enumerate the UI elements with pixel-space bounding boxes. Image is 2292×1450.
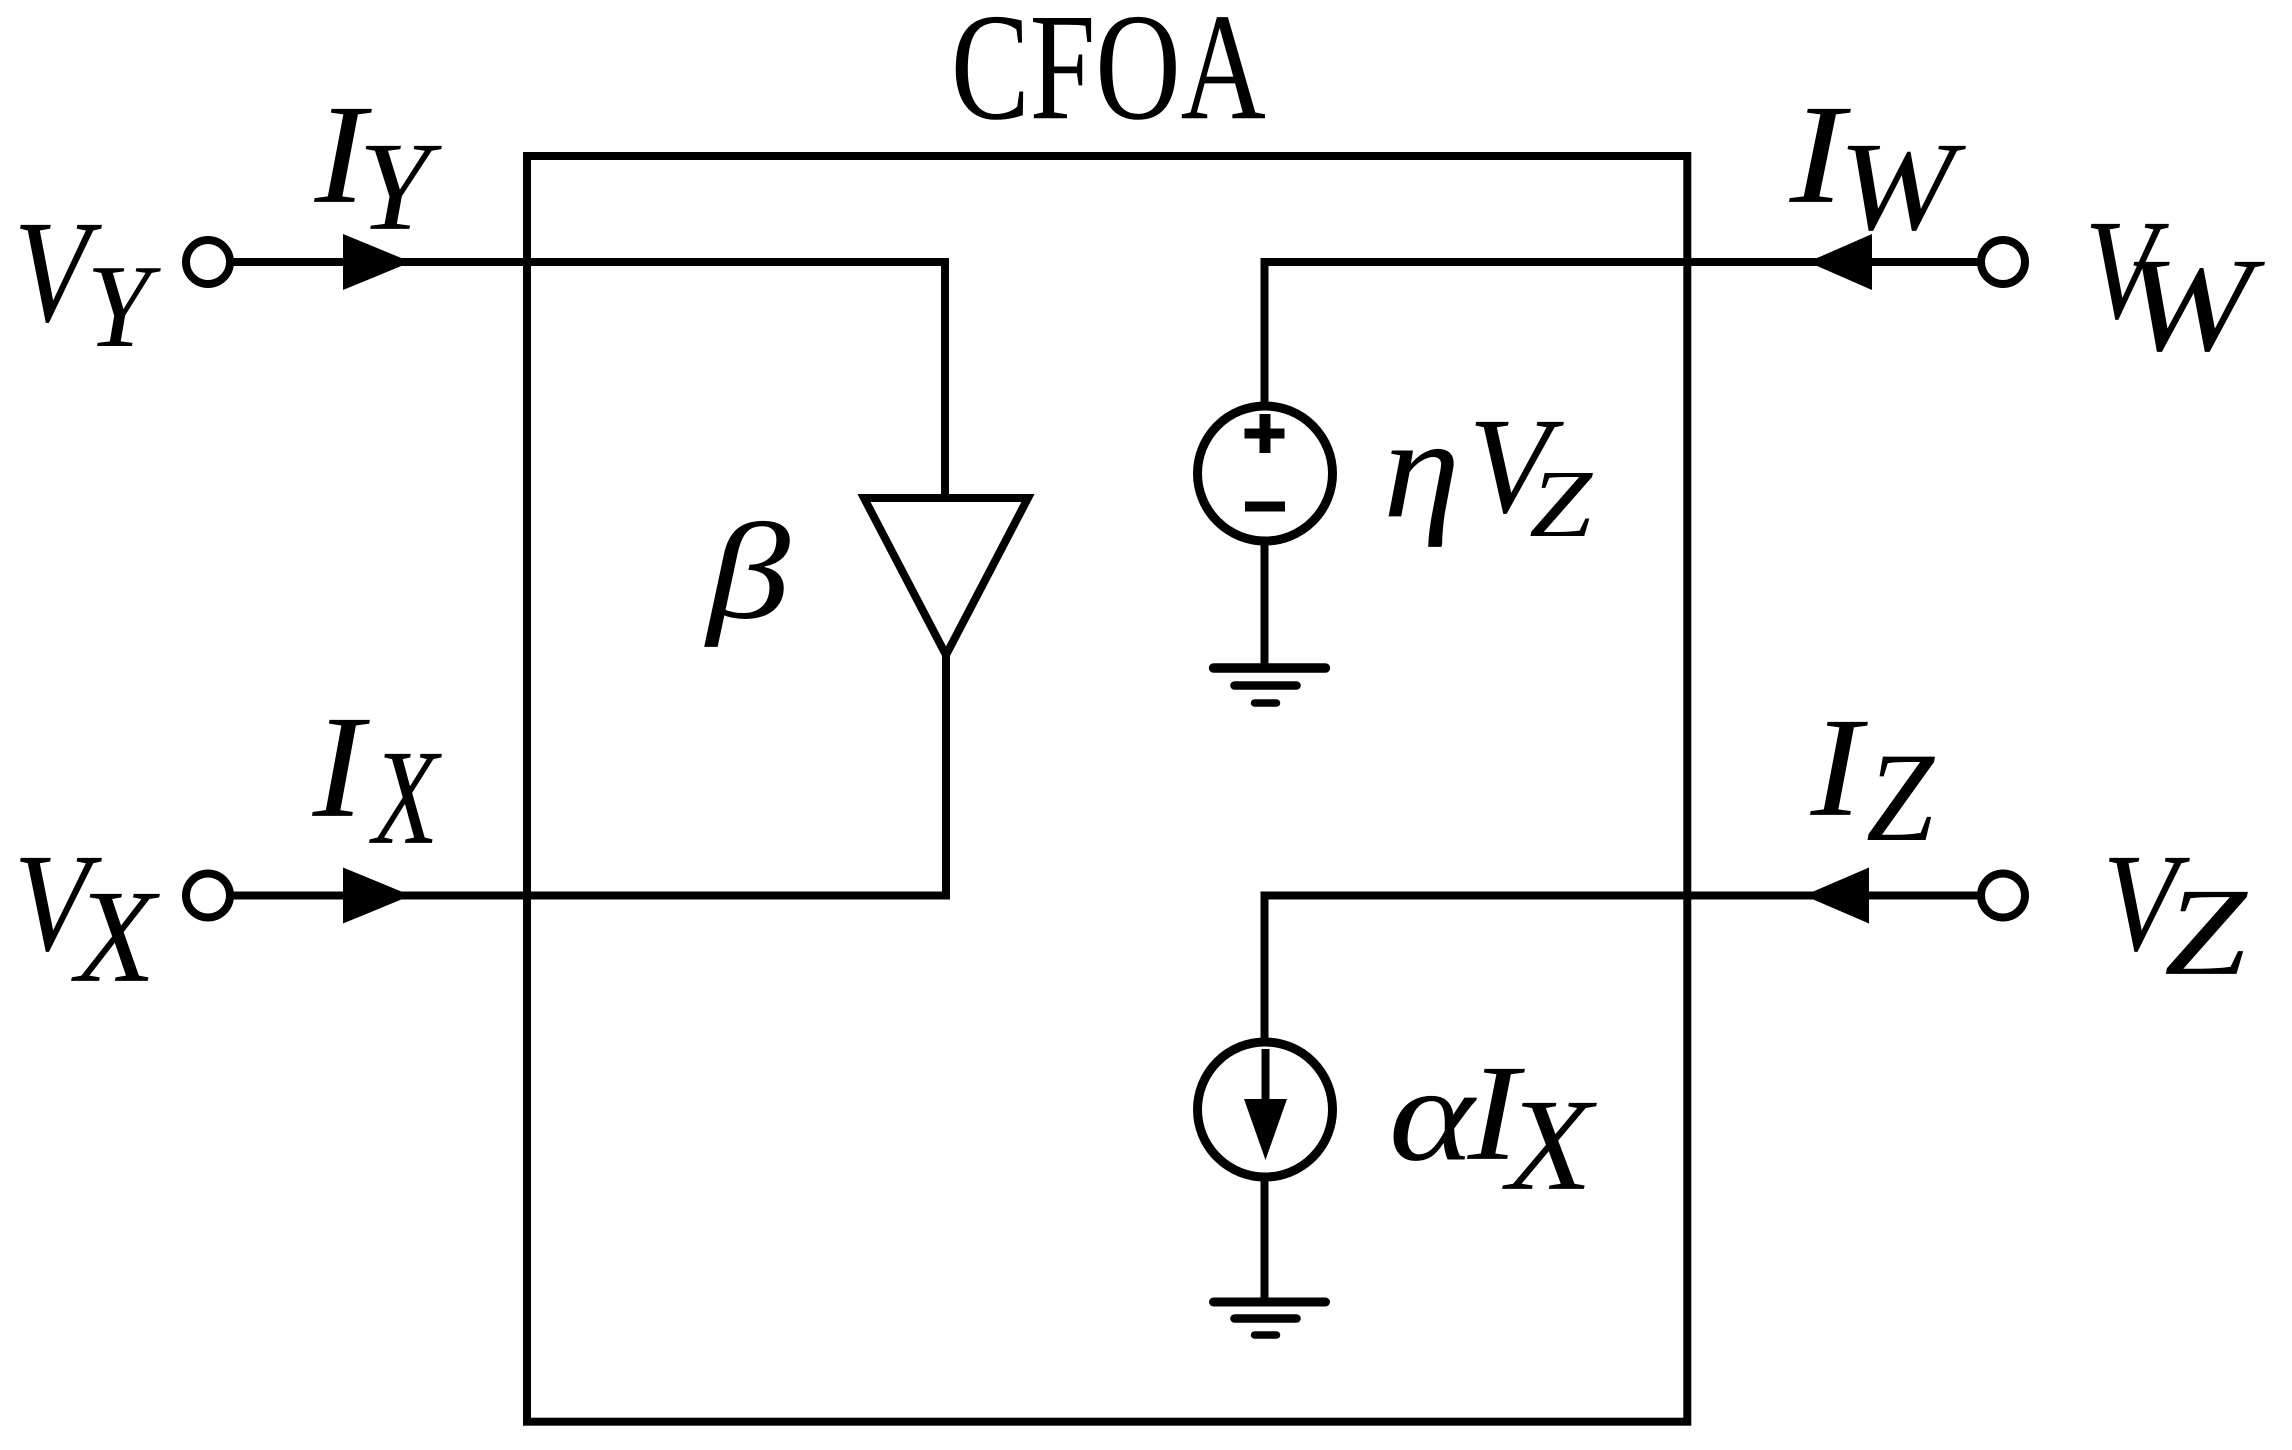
svg-text:W: W [2123, 231, 2266, 380]
svg-text:Z: Z [1866, 727, 1936, 867]
svg-text:α: α [1389, 1041, 1477, 1190]
wire buffer output to X node [942, 651, 950, 900]
label V_X sub [70, 862, 159, 1010]
wire Y corner drop to buffer input [941, 258, 949, 498]
ground symbol under E1 [1214, 668, 1326, 703]
svg-text:η: η [1383, 390, 1460, 548]
svg-text:Y: Y [86, 240, 161, 372]
label eta [1383, 390, 1460, 548]
svg-text:X: X [368, 722, 442, 873]
arrow inside F1 [1244, 1049, 1287, 1160]
arrow I_X direction [343, 868, 411, 924]
label alphaIX I [1467, 1036, 1526, 1189]
CFOA block outline [527, 156, 1687, 1422]
node Z terminal circle (V_Z port) [1981, 874, 2025, 918]
wire F1 to ground [1261, 1177, 1269, 1302]
label I_X sub [368, 722, 442, 873]
wire X input line [230, 892, 947, 900]
node X terminal circle (V_X port) [186, 874, 230, 918]
label V_Y sub [86, 240, 161, 372]
label V_Y main [14, 192, 103, 353]
plus sign of E1 [1245, 414, 1285, 453]
label I_W main [1789, 76, 1852, 233]
label V_Z main [2103, 825, 2191, 981]
svg-text:β: β [704, 496, 790, 648]
arrow I_Y direction [343, 234, 411, 290]
node W terminal circle (V_W port) [1981, 240, 2025, 284]
svg-text:I: I [312, 686, 370, 848]
svg-text:Z: Z [1529, 450, 1594, 557]
svg-text:Y: Y [358, 116, 442, 256]
svg-text:Z: Z [2164, 862, 2248, 1001]
arrow I_W direction [1808, 234, 1872, 290]
label I_W sub [1838, 116, 1966, 256]
wire Y input line [230, 258, 946, 266]
wire W corner drop to source [1261, 258, 1269, 407]
label V_Z sub [2164, 862, 2248, 1001]
svg-text:X: X [70, 862, 159, 1010]
svg-text:X: X [1502, 1073, 1598, 1218]
label etaVZ V [1468, 391, 1564, 542]
label alpha [1389, 1041, 1477, 1190]
minus sign of E1 [1245, 502, 1285, 512]
voltage source E1 eta*V_Z circle [1198, 406, 1333, 541]
label I_X main [312, 686, 370, 848]
label I_Y main [314, 76, 373, 233]
title CFOA [951, 0, 1266, 152]
wire W line [1265, 258, 1982, 266]
svg-text:I: I [1810, 689, 1869, 846]
label alphaIX sub [1502, 1073, 1598, 1218]
label V_W main [2085, 191, 2170, 350]
label I_Z sub [1866, 727, 1936, 867]
label V_W sub [2123, 231, 2266, 380]
label V_X main [14, 825, 102, 980]
svg-text:W: W [1838, 116, 1966, 256]
label beta [704, 496, 790, 648]
label I_Z main [1810, 689, 1869, 846]
label etaVZ sub [1529, 450, 1594, 557]
node Y terminal circle (V_Y port) [186, 240, 230, 284]
arrow I_Z direction [1804, 868, 1869, 924]
wire E1 to ground [1261, 541, 1269, 668]
label I_Y sub [358, 116, 442, 256]
wire Z line [1265, 892, 1982, 900]
op-amp buffer U1 (gain beta triangle) [864, 498, 1028, 655]
current source F1 alpha*I_X circle [1198, 1042, 1333, 1177]
ground symbol under F1 [1214, 1302, 1326, 1335]
wire Z corner drop to current source [1261, 892, 1269, 1044]
svg-text:CFOA: CFOA [951, 0, 1266, 152]
